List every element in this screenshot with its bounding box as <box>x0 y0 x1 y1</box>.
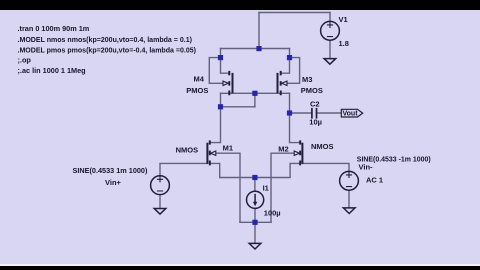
svg-text:.MODEL nmos nmos(kp=200u,vto=0: .MODEL nmos nmos(kp=200u,vto=0.4, lambda… <box>18 35 193 44</box>
svg-text:Vin-: Vin- <box>359 162 374 171</box>
wire V1 bottom lead <box>329 40 331 58</box>
svg-text:V1: V1 <box>339 15 348 24</box>
node Vout <box>287 110 292 115</box>
wire Vin- bottom lead <box>348 190 350 208</box>
wire M2 gate to Vin- <box>302 163 349 171</box>
wire Vin+ bottom lead <box>159 195 161 209</box>
wire M2 source to tail <box>255 163 300 177</box>
wire M2 bulk down <box>271 153 297 222</box>
svg-text:Vin+: Vin+ <box>105 178 122 187</box>
transistor M1 bulk arrow <box>211 151 216 155</box>
wire M1 bulk down <box>214 153 241 222</box>
transistor M4 channel ticks <box>228 71 230 95</box>
wire bottom rail <box>240 221 271 223</box>
voltage source V1 circle <box>321 21 340 40</box>
node I1 ground <box>252 220 257 225</box>
current source I1 circle <box>247 191 264 208</box>
wire M3 bulk to source <box>287 58 300 84</box>
transistor M3 gate bar <box>277 73 279 93</box>
svg-text:.MODEL pmos pmos(kp=200u,vto=-: .MODEL pmos pmos(kp=200u,vto=-0.4, lambd… <box>18 46 197 55</box>
wire vertical VDD feed <box>258 13 260 49</box>
wire gate-drain bus <box>221 92 290 94</box>
voltage source Vin- circle <box>340 171 359 190</box>
transistor M2 channel ticks <box>299 140 301 165</box>
transistor M3 channel ticks <box>280 71 282 95</box>
svg-text:10µ: 10µ <box>309 118 322 127</box>
wire I1 bottom lead <box>254 208 256 222</box>
ground below I1 <box>249 243 261 249</box>
junction nodes <box>218 46 292 225</box>
node tail <box>252 175 257 180</box>
svg-text:M2: M2 <box>278 145 288 154</box>
wire M1 source to tail <box>210 163 255 177</box>
wire M4 drain to M1 drain <box>210 93 221 142</box>
wire M4 source lead <box>221 58 229 74</box>
svg-text:PMOS: PMOS <box>186 86 208 95</box>
transistor M4 bulk arrow <box>223 81 228 85</box>
svg-text:M3: M3 <box>302 75 312 84</box>
spice directives text <box>18 24 197 75</box>
svg-text:SINE(0.4533 1m 1000): SINE(0.4533 1m 1000) <box>73 166 148 175</box>
transistor M2 gate bar <box>301 143 303 164</box>
wire VDD rail <box>221 48 290 50</box>
node M4 source/bulk <box>218 55 223 60</box>
svg-text:1.8: 1.8 <box>339 39 349 48</box>
transistor M1 channel ticks <box>209 140 211 165</box>
svg-text:NMOS: NMOS <box>311 142 334 151</box>
svg-text:;.op: ;.op <box>18 56 32 65</box>
wire rail right stub <box>289 49 291 58</box>
ground below V1 <box>324 59 336 65</box>
transistor M1 gate bar <box>206 143 208 164</box>
wire C2 to Vout flag <box>317 112 342 114</box>
transistor M4 gate bar <box>232 73 234 93</box>
svg-text:NMOS: NMOS <box>176 145 199 154</box>
voltage source Vin+ circle <box>151 176 170 195</box>
svg-text:;.ac lin 1000 1 1Meg: ;.ac lin 1000 1 1Meg <box>18 66 86 75</box>
wire V1 top lead <box>329 13 331 22</box>
svg-text:100µ: 100µ <box>264 209 281 218</box>
node mirror gate tap <box>252 91 257 96</box>
transistor M3 bulk arrow <box>282 81 287 85</box>
wire node out to C2 <box>290 112 312 114</box>
svg-text:I1: I1 <box>263 184 269 193</box>
bottom white strip <box>0 264 480 267</box>
node M4 drain <box>218 104 223 109</box>
wire M1 gate to Vin+ <box>160 163 207 176</box>
node Vout flag <box>341 109 362 117</box>
bottom letterbox bar <box>0 266 480 270</box>
wire rail left stub <box>220 49 222 58</box>
svg-text:C2: C2 <box>310 99 320 108</box>
svg-text:PMOS: PMOS <box>301 86 323 95</box>
wire ground stem I1 <box>254 222 256 243</box>
capacitor C2 plates <box>312 108 317 119</box>
svg-text:M4: M4 <box>194 75 205 84</box>
node VDD feed <box>256 46 261 51</box>
wire VDD top from node to V1 <box>259 12 330 14</box>
wire M3 source lead <box>282 58 290 74</box>
svg-text:.tran 0 100m 90m 1m: .tran 0 100m 90m 1m <box>18 24 90 33</box>
ground below Vin+ <box>154 209 166 215</box>
svg-text:AC 1: AC 1 <box>366 175 383 184</box>
svg-text:Vout: Vout <box>343 111 359 118</box>
node M3 source/bulk <box>287 55 292 60</box>
current source I1 arrowhead <box>253 202 257 206</box>
transistor M2 bulk arrow <box>294 151 299 155</box>
wire M3 drain to M2 drain <box>290 93 301 142</box>
ground below Vin- <box>343 208 355 214</box>
wire I1 top lead <box>254 178 256 192</box>
wire mirror tap vertical <box>254 93 256 107</box>
wire mirror tap horizontal <box>221 106 255 108</box>
top letterbox bar <box>0 0 480 10</box>
svg-text:M1: M1 <box>223 143 233 152</box>
wire M4 bulk to source <box>209 58 222 84</box>
